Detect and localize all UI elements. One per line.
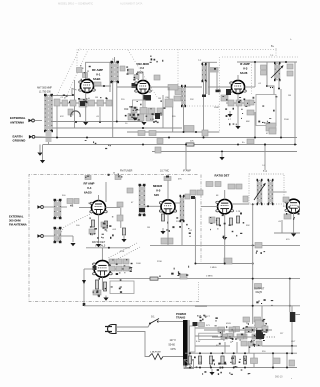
tuning gang dotted linkage 2 [66,50,88,97]
wire IFT1 sec to V2 grid [117,86,137,88]
power switch S1 [149,319,159,325]
filter network component 13 [252,334,259,339]
IFT1 trimmer [120,66,125,71]
wire IFT1 right leg down [116,82,118,121]
wire V7 down [293,213,295,233]
antenna coil L1 [44,94,53,142]
wire beside IFT2 vertical [206,62,208,94]
wire y245 run [150,244,300,246]
wire OT down [291,322,293,346]
component right a [190,190,196,195]
bus junction extra 3 [168,137,170,139]
V3 screen bypass C8 [247,110,254,115]
wire V5 plate to divider [175,202,180,204]
junction grid V5 [147,205,149,207]
terminal earth ground [29,135,35,139]
bus connector right b [286,353,288,367]
wire V8 bottom down [101,277,103,290]
ground symbol earth [37,153,42,156]
svg-text:450V: 450V [226,323,231,325]
svg-text:V-3: V-3 [243,67,248,71]
wire V6 plate right [232,203,249,205]
interstage trimmer [117,215,123,221]
wire V6 grid left [201,206,218,208]
T4 secondary coil [268,179,274,205]
feedthrough on border b [115,176,121,180]
series resistor on bus [186,143,194,146]
secondary tap wire 2 [195,335,218,337]
divider junction top 6 [244,352,246,354]
detector area specks [258,96,277,123]
divider junction bottom 2 [199,367,201,369]
filter network component 5 [248,327,255,332]
V4 lower specks [90,223,114,238]
resistor below interstage [122,228,125,235]
IF transformer T1 primary [111,61,120,83]
svg-text:OSC-MOD: OSC-MOD [137,62,150,66]
V2 lower component 1 [128,114,135,121]
V1 row component 5 [97,100,104,106]
dotted diagonal to V8 a [108,243,137,258]
divider junction top 1 [189,352,191,354]
component above V6 a [206,182,213,187]
bus junction extra 7 [294,144,296,146]
filter vertical link a [222,330,224,337]
bus junction extra 6 [280,137,282,139]
balun coil lower [54,227,62,243]
junction T3 drop [266,85,268,87]
junction x289 y305 [289,305,291,307]
wire V1 cathode down [85,93,87,122]
svg-text:6.8K: 6.8K [150,119,155,121]
svg-text:6J6: 6J6 [154,193,159,197]
wire V1 plate to IFT1 [94,85,111,87]
specks above y305 line [256,299,273,306]
wire osc coil down to bus [172,107,174,132]
component on bus y132 [184,126,194,132]
divider resistor 2 between buses [198,356,201,364]
vertical x195 to y263 [194,236,196,264]
speaker cluster gray b [262,326,268,332]
svg-text:MIXER: MIXER [153,184,163,188]
V2 row component 3 [148,108,155,115]
right edge vertical [294,62,296,145]
tube V6 FM IF [216,199,234,213]
junction V1 plate [103,85,105,87]
V1 row component 1 [62,100,68,106]
filter vertical link c [244,330,246,337]
divider resistor 4 between buses [221,356,224,364]
dotted vertical near output stage [198,282,200,302]
V4 cathode resistor [91,220,94,227]
junction top rail 2 [285,61,287,63]
filter network component 1 [218,327,225,332]
component below V7 [284,214,291,219]
row above bus c [256,341,262,346]
tube V8 FM detector [93,261,113,278]
tuning gang dotted linkage 1 [57,48,80,95]
tapped divider right of V5 [180,195,185,222]
svg-text:100K: 100K [214,107,219,109]
coupling capacitor FM [67,199,73,204]
wire V4 plate branch down [120,208,122,229]
V7 cluster drop b [281,220,283,233]
tuning gang dotted drop to osc trimmer [177,50,179,89]
junction blob x84 bottom [83,303,86,306]
V1 row component 2 [70,100,76,106]
svg-text:8.2K: 8.2K [120,251,125,253]
speaker area specks [256,319,268,340]
wire V3 plate right [245,86,255,88]
row above bus specks [249,340,260,347]
wire V5 top up [167,181,169,200]
junction V1 lower row [75,121,77,123]
svg-text:6AQ5: 6AQ5 [256,291,263,294]
y245 component specks [256,251,265,255]
filter network component 8 [254,317,261,322]
wire balun lower down [72,236,74,242]
tuning gang dotted drop to ant trimmer [76,50,78,67]
junction feed a [185,144,187,146]
bus connector mid [253,353,255,367]
IFT2 bottom terminal [202,95,206,98]
bus y132 [127,131,219,133]
component on mid connector [251,358,258,364]
junction T4 box bottom [252,203,254,205]
svg-text:TRANS: TRANS [176,316,185,320]
component right of V8 e [116,266,122,271]
ground V3 left [227,111,232,117]
feedthrough on border [164,177,171,181]
V3 AVC capacitor C7 [221,95,228,101]
wire V3 plate up [254,62,256,87]
gang cap specks [80,65,90,81]
divider junction top 4 [222,352,224,354]
wire IFT2 leg2 down [205,81,207,96]
FM tuner dash-dot border right [200,175,202,263]
V6 cathode resistor [216,218,219,225]
filter network component 11 [237,334,244,339]
vertical from components [194,197,196,236]
wire V2 plate to IFT2 [150,86,202,88]
wire V5 bottom link [167,228,169,245]
V1 component text specks [63,94,108,103]
component right b [197,190,203,195]
divider junction bottom 1 [189,367,191,369]
chassis arrow below V7 [291,234,296,237]
transformer leg to lower bus [185,366,187,368]
AC neutral cord to fuse [116,332,149,357]
svg-text:560-10: 560-10 [275,376,283,379]
divider resistor 6 between buses [243,356,246,364]
oscillator coil L2 [165,99,173,107]
shield box right mid [256,95,276,126]
osc upper extra specks [150,56,164,63]
bus junction d [221,151,223,153]
interstage coupling cap [117,202,123,207]
bus junction extra 2 [142,127,144,129]
row above bus a [241,341,247,346]
vertical main x252 [252,204,254,324]
bus junction extra 9 [56,137,58,139]
svg-text:250K: 250K [284,119,289,121]
bus junction c [264,144,266,146]
ground below V3 [235,124,240,129]
junction y305 x252 [252,305,254,307]
wire C1A down to AVC bus [56,106,58,138]
rectifier plate blob [193,322,198,326]
wire V4 top up [98,195,100,201]
wire V7 right stub [297,205,300,207]
V2 cathode dark cluster [143,95,151,101]
wire T3 right leg down [278,80,280,89]
wire T3 left drop [266,62,268,86]
component above V6 c [228,184,235,189]
bus dot b1 [286,352,288,354]
ground below V5 [160,228,165,234]
V3 component text specks [222,96,255,125]
junction y278 a [252,278,254,280]
svg-text:ANT 500 MMF: ANT 500 MMF [37,87,52,90]
bus area specks [85,140,111,149]
svg-text:220K: 220K [176,221,181,223]
divider resistor 1 between buses [188,356,191,364]
svg-text:300 OHM: 300 OHM [9,219,21,223]
capacitor on bus 1 [155,147,161,153]
wire FM ant lower to balun [43,235,54,237]
heater winding box [199,333,223,339]
bus connector right a [272,353,274,367]
wire OT to speaker right [295,314,300,316]
wire y305 run [84,305,300,307]
FM detector coil left of V5 [139,184,146,216]
junction top rail [254,61,256,63]
wire T3 down long [280,89,282,138]
svg-text:6AU6: 6AU6 [240,71,248,75]
wire V2 cathode down [142,94,144,121]
svg-text:FM TUNER: FM TUNER [120,170,133,173]
tuning gang dotted top rail [78,49,278,51]
V6 cluster drop [224,235,226,264]
bus junction extra 5 [237,144,239,146]
wire T4 sec right [273,191,287,193]
bus dot b2 [286,367,288,369]
bus y128 [53,127,183,129]
V1 row component 3 [79,99,87,107]
V3 row component 1 [228,100,234,106]
ground balun [70,243,75,246]
svg-text:6AB4: 6AB4 [93,77,101,81]
oscillator padder C5 [154,75,160,80]
filter drop b [236,342,238,353]
component right of V8 b [116,259,122,264]
svg-text:50-60: 50-60 [169,344,176,347]
wire rect to filter [204,329,253,331]
svg-text:IF AMP: IF AMP [183,170,191,173]
filter cluster specks [219,323,266,344]
junction rail row2 [108,247,110,249]
component on B+ line [174,96,181,101]
choke down to bus [183,106,185,132]
V1 plate side component [94,82,101,86]
dark blob left of V3 [226,89,231,95]
svg-text:V-1: V-1 [96,73,101,77]
svg-text:MODEL 5R10 — SCHEMATIC: MODEL 5R10 — SCHEMATIC [58,2,93,6]
junction filter x252 [252,329,254,331]
filter network component 7 [243,317,250,322]
dark speck right of V5 [191,196,195,199]
V2 grid cap [132,83,137,88]
junction below T3 [278,88,280,90]
trimmer left of T3 [261,65,267,70]
tiny dot pair b [272,87,273,88]
ground on lower bus [219,153,224,160]
bus junction extra 8 [254,137,256,139]
svg-text:IF AMP: IF AMP [240,62,250,66]
component on bus y132 c [149,131,156,136]
svg-text:2.2K: 2.2K [236,211,241,213]
ground below V4 [96,244,101,247]
long run y278.6 [109,278,300,280]
divider resistor 5 between buses [232,356,235,364]
svg-text:1M: 1M [95,97,98,99]
bottom bus upper [185,352,297,354]
IF transformer T2 [202,63,207,82]
wire FM ant upper to balun [43,206,54,208]
svg-text:FM ANTENNA: FM ANTENNA [9,223,27,227]
svg-text:1M: 1M [288,95,291,97]
gang cap return wire [74,80,76,128]
tube V5 mixer [159,200,176,214]
V2 component text specks [130,100,166,123]
divider row specks [194,357,246,369]
component on B bus a [247,139,254,144]
wire V8 top [101,248,103,261]
component right of V8 c [123,259,129,264]
wire x292 down to bus [291,346,293,353]
V2 lower component 3 [146,114,153,121]
ground below V2 a [132,115,137,121]
V2 row component 1 [131,107,137,113]
terminal FM antenna lower [37,234,43,238]
output stage label box [255,284,262,289]
wire V8 left [84,268,94,270]
detector transformer coil T3 [274,62,281,81]
svg-text:10.7 MC: 10.7 MC [160,170,169,173]
bus dot a1 [272,352,274,354]
wire switch to transformer primary top [158,321,183,323]
wire stub down to cap [216,73,218,90]
wire V1 component row axis [60,102,112,104]
vertical V1 row right [99,107,101,122]
junction V6 drop [224,263,226,265]
wire V6 top [224,190,226,199]
rect area specks [199,315,217,327]
svg-text:1.6A FUSE: 1.6A FUSE [150,351,161,354]
rectifier socket blob [199,323,205,327]
svg-text:T-4: T-4 [263,170,267,173]
junction x252 y263 [252,263,254,265]
vertical x292 to y305 [291,306,293,312]
plate lead component row [168,85,178,91]
bus junction a [142,144,144,146]
junction y346 [291,345,293,347]
filter network component 3 [233,327,240,332]
junction on bus y132 [195,131,197,133]
filter network component 6 [255,334,262,339]
divider junction bottom 4 [222,367,224,369]
wire IFT1 top stub [114,57,116,62]
wire IFT1 left leg down [112,82,114,138]
component on bus y132 b [138,131,145,136]
V1 row component 6 [106,100,112,106]
V7 area specks [283,200,299,219]
antenna gang capacitor a [77,68,83,73]
vertical x289 down to OT [289,279,291,312]
component above V6 d [236,184,242,189]
filter network component 9 [221,334,228,339]
divider junction top 5 [233,352,235,354]
T4 dotted shield box [249,174,284,204]
bus junction extra 1 [116,121,118,123]
top AVC bus [53,121,144,123]
dotted B+ drop [275,48,277,57]
osc box right edge [162,95,164,128]
long B minus bus [43,144,298,146]
wire V2 top up [142,73,144,80]
svg-text:1 MEG: 1 MEG [206,276,213,278]
bus dot a2 [272,367,274,369]
dotted row right top [222,56,298,58]
tube V7 audio output [285,199,302,213]
V6 cluster extra blob [209,217,215,223]
wire V8 right [111,268,130,270]
osc trimmer specks [126,67,139,81]
V5 cathode resistor [161,214,164,221]
svg-text:47K: 47K [60,116,64,118]
ground below V2 b [141,122,146,125]
svg-text:V-2: V-2 [140,66,144,70]
svg-text:V-5: V-5 [156,189,161,193]
V3 row component 3 [244,100,250,106]
antenna gang capacitor b [83,73,88,78]
wire antenna terminal to coil [34,120,42,122]
svg-text:1 MEG: 1 MEG [210,267,217,269]
AC line plug [105,325,116,334]
component between buses right 2 [289,360,295,366]
ground below V6 [222,235,227,240]
bus junction extra 0 [86,137,88,139]
speaker cluster dark b [258,334,264,339]
arrowhead on x84 feed [82,280,86,284]
black capacitor below stub [216,90,221,93]
junction x195 y263 [194,263,196,265]
tiny dot pair a [270,87,271,88]
svg-text:L1 750-200: L1 750-200 [39,92,51,94]
svg-text:ANTENNA: ANTENNA [10,121,25,125]
component right of V8 f [123,266,129,271]
feedthrough on border a [85,176,91,180]
terminal external antenna [28,119,34,123]
feedback loop box [110,281,134,294]
wire osc coil to plate junction [168,87,170,99]
component above V6 b [215,182,221,187]
svg-text:EXTERNAL: EXTERNAL [9,215,24,219]
middle bus y263 [196,263,253,265]
plate choke right of osc [181,85,186,107]
tuning arrow T4 [254,184,265,200]
wire coil to V5 grid [145,205,161,207]
